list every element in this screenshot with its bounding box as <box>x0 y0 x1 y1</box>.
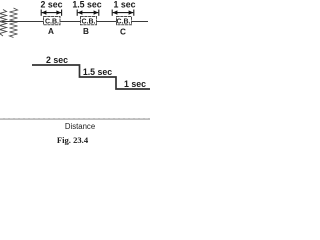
svg-text:C.B.: C.B. <box>117 18 131 25</box>
baseline (distance axis) <box>0 118 150 120</box>
graph label 1 sec <box>124 79 146 89</box>
time label 1.5 sec (top) <box>72 0 101 10</box>
wire <box>2 21 148 23</box>
caption Fig. 23.4 <box>57 135 89 145</box>
svg-text:B: B <box>83 27 89 36</box>
graph label 1.5 sec <box>83 67 112 77</box>
dimension ticks and arrow above C (1 sec) <box>112 10 134 16</box>
dimension ticks and arrow above B (1.5 sec) <box>77 10 99 16</box>
circuit breaker box B <box>81 17 97 26</box>
node label C <box>120 28 126 37</box>
spring (right) <box>10 8 18 38</box>
svg-text:Fig. 23.4: Fig. 23.4 <box>57 135 89 145</box>
node label A <box>48 27 54 36</box>
step graph line (distance vs delay) <box>32 65 150 89</box>
svg-text:1 sec: 1 sec <box>124 79 146 89</box>
svg-text:1.5 sec: 1.5 sec <box>83 67 112 77</box>
dimension ticks and arrow above A (2 sec) <box>41 10 61 16</box>
spring (left, clipped at edge) <box>0 10 7 37</box>
time label 1 sec (top) <box>113 0 135 10</box>
node label B <box>83 27 89 36</box>
svg-text:C: C <box>120 28 126 37</box>
svg-text:A: A <box>48 27 54 36</box>
graph label 2 sec <box>46 55 68 65</box>
svg-text:Distance: Distance <box>65 122 95 131</box>
svg-text:1.5 sec: 1.5 sec <box>72 0 101 10</box>
svg-text:2 sec: 2 sec <box>46 55 68 65</box>
circuit breaker box C <box>117 17 132 26</box>
time label 2 sec (top) <box>40 0 62 10</box>
svg-text:2 sec: 2 sec <box>40 0 62 10</box>
axis label Distance <box>65 122 95 131</box>
svg-text:C.B.: C.B. <box>45 18 59 25</box>
circuit breaker box A <box>44 17 61 26</box>
svg-text:1 sec: 1 sec <box>113 0 135 10</box>
svg-text:C.B.: C.B. <box>82 18 96 25</box>
